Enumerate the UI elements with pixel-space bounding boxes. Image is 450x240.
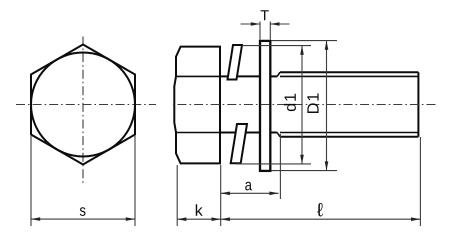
hex head side view facet line lower: [176, 132, 220, 134]
wire T-extension-left: [259, 22, 261, 40]
wire thread crest line top: [280, 71, 418, 73]
wire thread root line top: [280, 75, 418, 77]
node bolt end face: [417, 72, 419, 137]
wire a-extension-right: [279, 134, 281, 199]
wire d1-extension-bottom: [236, 163, 311, 165]
node l-dimension-line: [221, 218, 421, 220]
wire d1-extension-top: [242, 45, 311, 47]
spring washer lower section: [231, 124, 247, 163]
node a-label: [245, 182, 252, 191]
hex head side view outline: [174, 47, 220, 164]
wire neck top edge stub springwasher-to-flatwasher: [237, 75, 260, 77]
node centerline-left-horizontal: [16, 104, 156, 106]
wire l-extension-right: [419, 137, 421, 226]
wire s-extension-left: [30, 136, 32, 226]
node a-dimension-line: [221, 192, 279, 194]
node k-label: [196, 204, 203, 216]
node T-dimension-line: [241, 23, 261, 25]
node d1-dimension-line: [301, 46, 303, 164]
node D1-dimension-line: [326, 41, 328, 171]
wire neck bottom edge stub springwasher-to-flatwasher: [246, 132, 260, 134]
wire D1-extension-top: [271, 40, 337, 42]
node l-label: [317, 203, 323, 216]
wire s-extension-right: [134, 136, 136, 226]
node T-label: [261, 10, 269, 20]
spring washer upper section: [228, 45, 243, 80]
wire D1-extension-bottom: [271, 170, 337, 172]
wire thread root line bottom: [280, 132, 418, 134]
hex head chamfer circle: [31, 53, 135, 157]
node s-label: [80, 207, 86, 216]
wire neck bottom edge flatwasher-to-thread: [271, 132, 277, 134]
wire neck top edge flatwasher-to-thread: [271, 75, 277, 77]
hex head side view facet line upper: [176, 75, 220, 77]
node D1-label: [307, 93, 318, 113]
wire head-left-extension: [176, 165, 178, 226]
wire neck bottom edge stub head-to-springwasher: [220, 132, 236, 134]
wire neck top edge stub head-to-springwasher: [220, 75, 228, 77]
node centerline-left-vertical: [82, 37, 84, 184]
node s-dimension-line: [31, 218, 135, 220]
node d1-label: [284, 94, 296, 111]
hex head front view hexagon: [31, 45, 135, 165]
wire T-extension-right: [269, 22, 271, 40]
wire thread lead-in bottom: [277, 133, 280, 137]
wire thread lead-in top: [277, 72, 280, 76]
node centerline-right-horizontal: [170, 104, 436, 106]
wire thread crest line bottom: [280, 136, 418, 138]
flat washer: [260, 41, 270, 171]
wire head-right-extension: [220, 165, 222, 226]
node k-dimension-line: [177, 218, 221, 220]
